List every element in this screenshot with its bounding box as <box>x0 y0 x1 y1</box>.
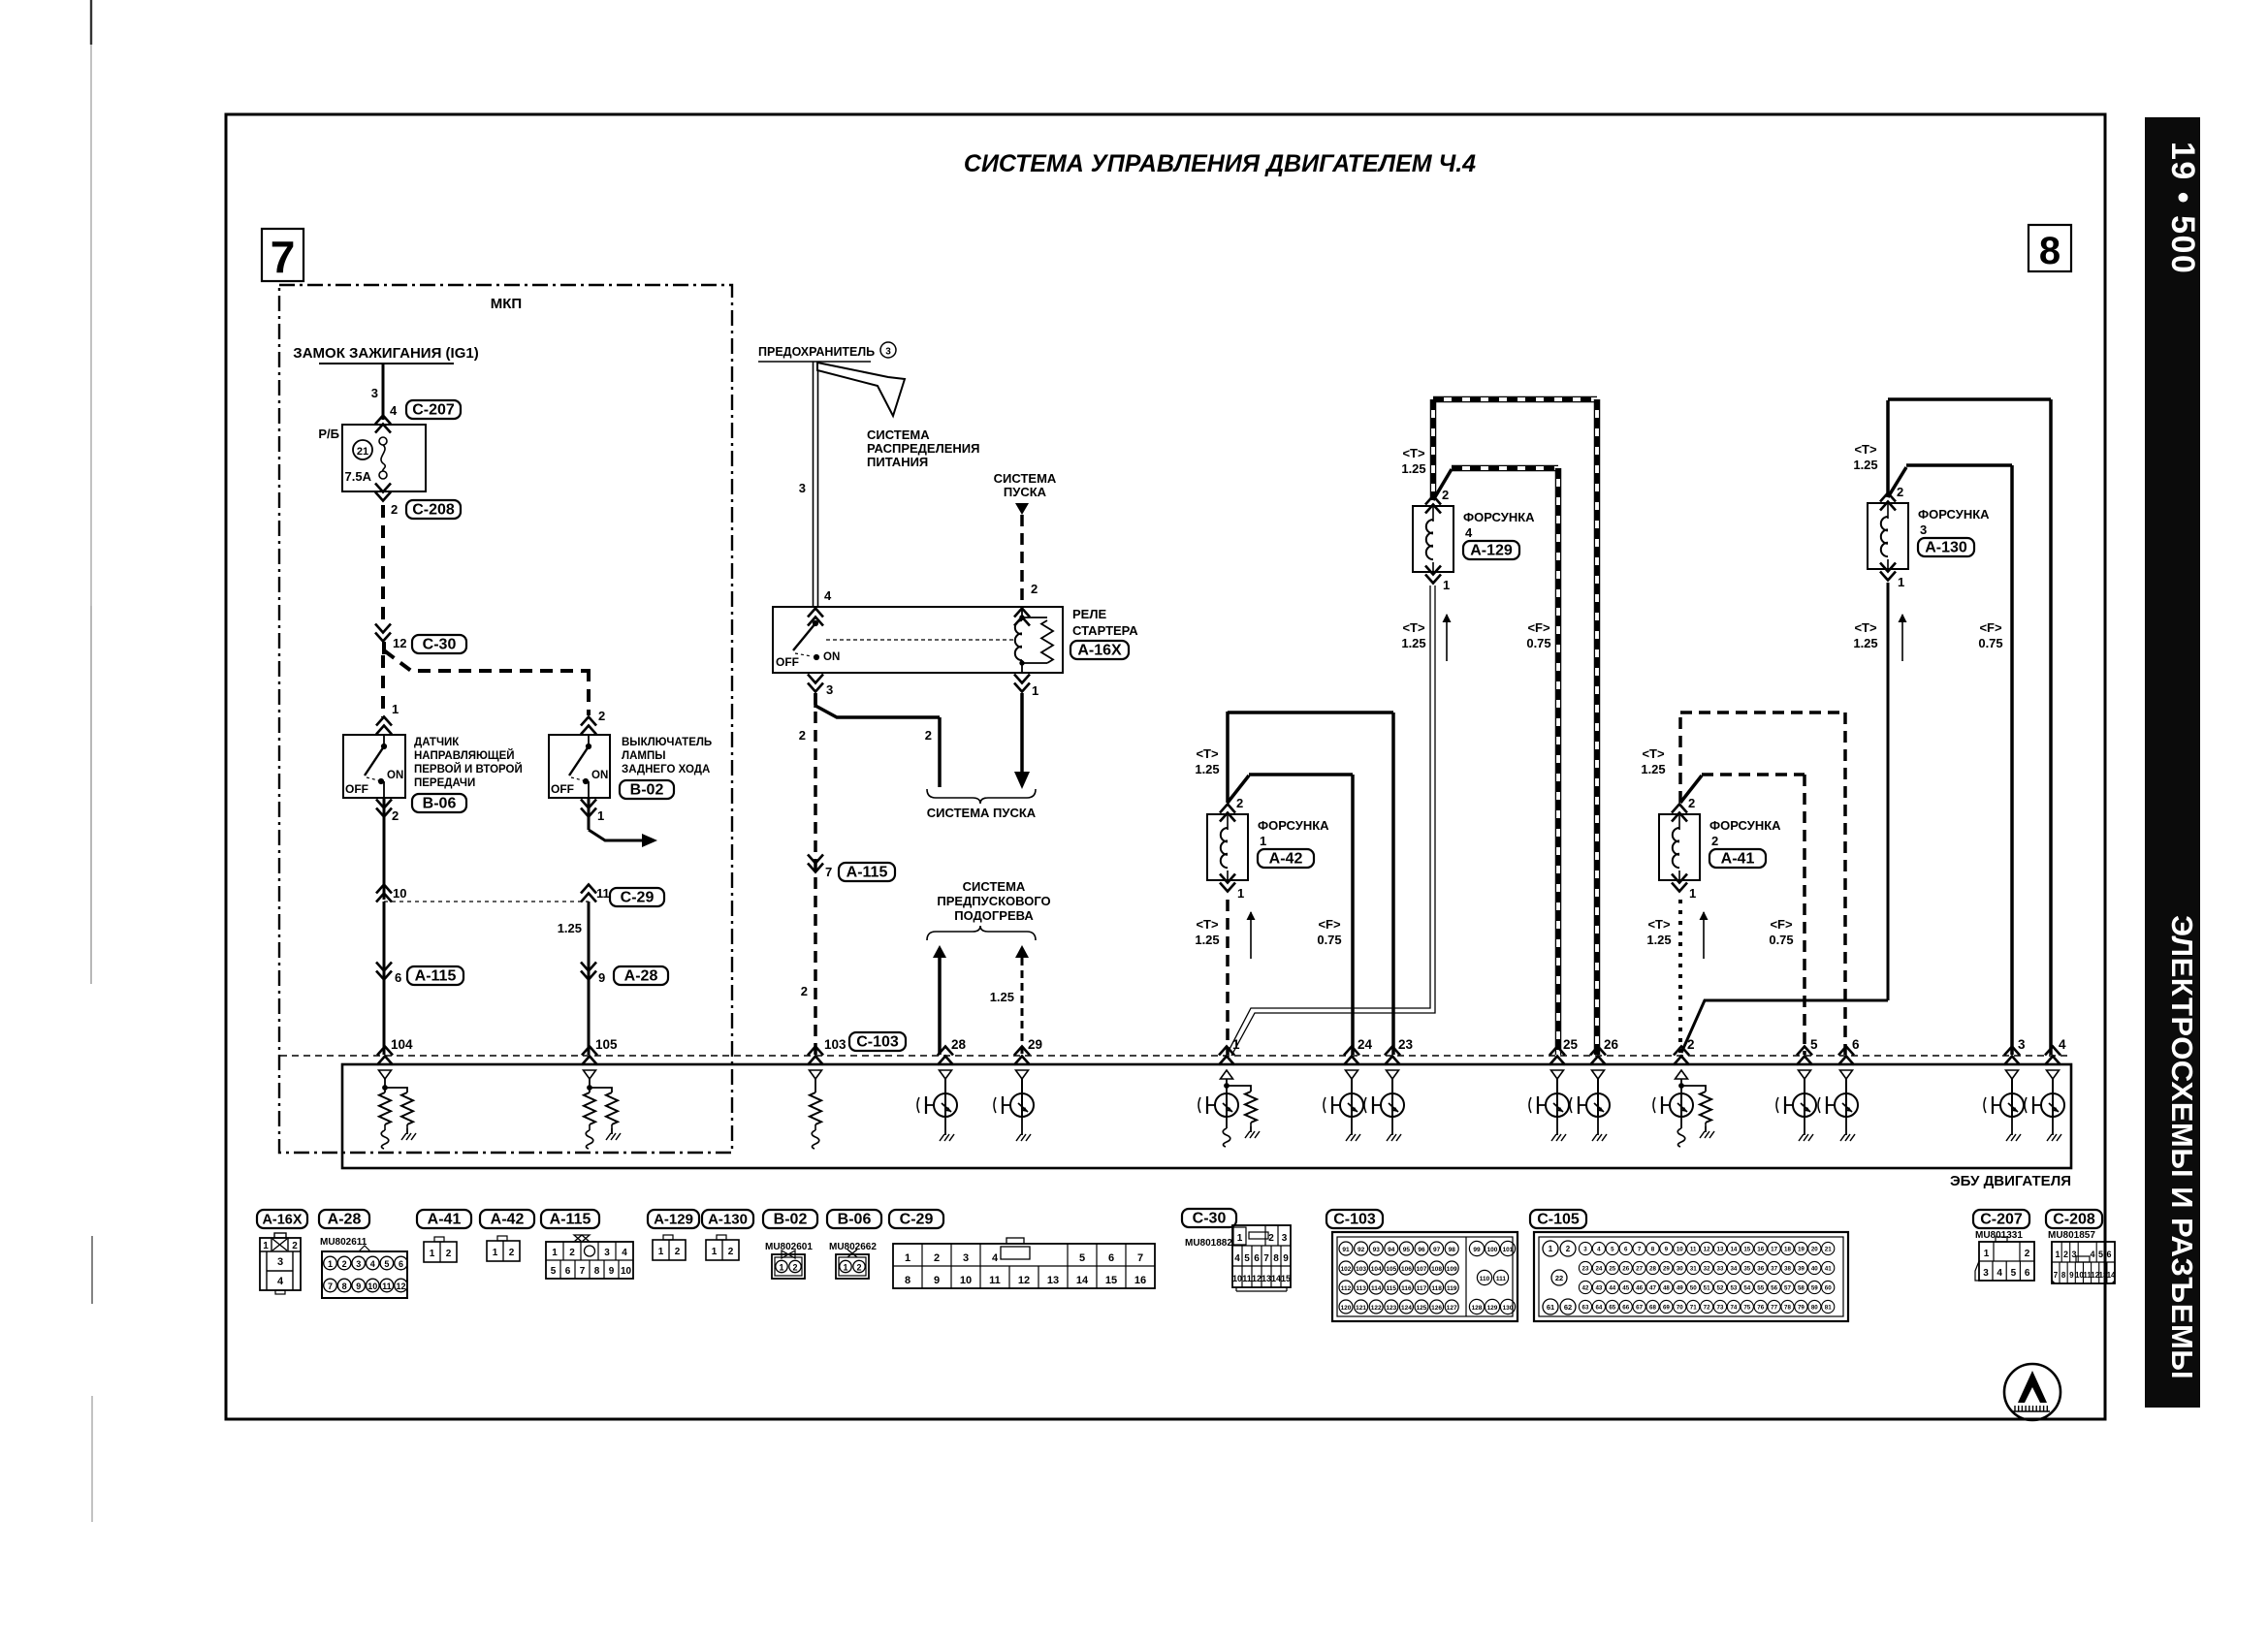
svg-text:C-30: C-30 <box>423 637 457 653</box>
svg-text:A-42: A-42 <box>491 1212 525 1228</box>
svg-text:10: 10 <box>1232 1274 1242 1283</box>
svg-text:A-129: A-129 <box>654 1212 693 1228</box>
svg-text:<T>: <T> <box>1402 446 1425 460</box>
svg-text:2: 2 <box>2025 1249 2030 1259</box>
svg-text:104: 104 <box>391 1037 413 1052</box>
svg-text:1: 1 <box>1237 1233 1243 1244</box>
svg-text:23: 23 <box>1582 1266 1589 1273</box>
svg-text:59: 59 <box>1811 1285 1818 1292</box>
svg-text:A-130: A-130 <box>1925 540 1967 556</box>
svg-text:29: 29 <box>1663 1266 1670 1273</box>
svg-text:99: 99 <box>1473 1247 1481 1253</box>
svg-text:25: 25 <box>1563 1037 1579 1052</box>
svg-text:21: 21 <box>357 446 368 458</box>
svg-text:70: 70 <box>1677 1305 1683 1312</box>
svg-text:8: 8 <box>342 1282 347 1291</box>
svg-text:MU802662: MU802662 <box>829 1242 877 1252</box>
svg-text:B-06: B-06 <box>838 1212 872 1228</box>
svg-text:3: 3 <box>604 1248 610 1258</box>
svg-text:13: 13 <box>1047 1275 1059 1286</box>
svg-text:1: 1 <box>1689 886 1696 901</box>
svg-text:57: 57 <box>1784 1285 1791 1292</box>
svg-text:2: 2 <box>1897 485 1903 499</box>
svg-text:125: 125 <box>1417 1305 1427 1312</box>
svg-text:5: 5 <box>1244 1253 1250 1264</box>
svg-text:62: 62 <box>1564 1303 1572 1312</box>
svg-text:3: 3 <box>1282 1233 1288 1244</box>
svg-text:СИСТЕМА УПРАВЛЕНИЯ ДВИГАТЕЛЕМ: СИСТЕМА УПРАВЛЕНИЯ ДВИГАТЕЛЕМ Ч.4 <box>964 150 1476 177</box>
svg-text:1: 1 <box>430 1249 435 1259</box>
svg-text:6: 6 <box>1852 1037 1860 1052</box>
svg-text:127: 127 <box>1447 1305 1457 1312</box>
svg-text:4: 4 <box>992 1252 999 1264</box>
svg-text:41: 41 <box>1825 1266 1832 1273</box>
svg-text:67: 67 <box>1636 1305 1643 1312</box>
svg-text:3: 3 <box>885 347 891 358</box>
svg-text:7: 7 <box>328 1282 333 1291</box>
svg-text:98: 98 <box>1449 1247 1456 1253</box>
svg-text:A-41: A-41 <box>428 1212 462 1228</box>
svg-text:10: 10 <box>1677 1247 1683 1253</box>
svg-text:114: 114 <box>1371 1285 1382 1292</box>
svg-text:ЗАМОК ЗАЖИГАНИЯ (IG1): ЗАМОК ЗАЖИГАНИЯ (IG1) <box>293 345 478 362</box>
svg-text:OFF: OFF <box>776 655 799 669</box>
svg-text:ФОРСУНКА: ФОРСУНКА <box>1463 510 1535 524</box>
svg-text:3: 3 <box>1583 1247 1587 1253</box>
svg-text:2: 2 <box>925 728 932 743</box>
svg-text:2: 2 <box>598 709 605 723</box>
svg-text:15: 15 <box>1281 1274 1291 1283</box>
svg-text:61: 61 <box>1547 1303 1554 1312</box>
svg-text:10: 10 <box>960 1275 972 1286</box>
svg-text:1.25: 1.25 <box>1853 636 1877 650</box>
svg-text:2: 2 <box>1688 796 1695 810</box>
svg-text:1.25: 1.25 <box>1401 636 1425 650</box>
svg-text:3: 3 <box>356 1259 361 1269</box>
svg-text:1: 1 <box>1232 1037 1240 1052</box>
svg-text:MU801331: MU801331 <box>1975 1230 2023 1241</box>
svg-text:<T>: <T> <box>1196 917 1219 932</box>
svg-text:17: 17 <box>1771 1247 1777 1253</box>
svg-text:1: 1 <box>328 1259 333 1269</box>
svg-text:A-115: A-115 <box>550 1212 591 1228</box>
svg-text:13: 13 <box>1717 1247 1724 1253</box>
svg-text:33: 33 <box>1717 1266 1724 1273</box>
svg-text:7.5A: 7.5A <box>345 469 372 484</box>
svg-text:7: 7 <box>825 865 832 879</box>
svg-text:MU801882: MU801882 <box>1185 1238 1232 1249</box>
svg-text:104: 104 <box>1371 1266 1382 1273</box>
svg-text:MU801857: MU801857 <box>2048 1230 2095 1241</box>
svg-text:11: 11 <box>382 1282 392 1291</box>
svg-text:ЗАДНЕГО ХОДА: ЗАДНЕГО ХОДА <box>622 764 710 776</box>
svg-text:<T>: <T> <box>1854 620 1877 635</box>
svg-text:РЕЛЕ: РЕЛЕ <box>1072 607 1106 621</box>
svg-text:3: 3 <box>963 1252 969 1264</box>
svg-text:96: 96 <box>1418 1247 1425 1253</box>
svg-text:8: 8 <box>905 1275 910 1286</box>
svg-text:MU802611: MU802611 <box>320 1237 367 1248</box>
svg-text:58: 58 <box>1798 1285 1805 1292</box>
svg-text:4: 4 <box>370 1259 375 1269</box>
svg-text:108: 108 <box>1431 1266 1442 1273</box>
svg-text:71: 71 <box>1690 1305 1697 1312</box>
svg-text:79: 79 <box>1798 1305 1805 1312</box>
svg-text:2: 2 <box>799 728 806 743</box>
svg-text:46: 46 <box>1636 1285 1643 1292</box>
svg-text:3: 3 <box>1983 1268 1989 1279</box>
svg-text:3: 3 <box>277 1256 283 1268</box>
svg-text:B-02: B-02 <box>774 1212 808 1228</box>
svg-text:113: 113 <box>1356 1285 1366 1292</box>
svg-text:6: 6 <box>1108 1252 1114 1264</box>
svg-text:C-103: C-103 <box>1333 1212 1376 1228</box>
svg-text:4: 4 <box>277 1276 284 1287</box>
svg-text:7: 7 <box>1263 1253 1269 1264</box>
svg-text:2: 2 <box>392 808 399 823</box>
svg-text:38: 38 <box>1784 1266 1791 1273</box>
svg-text:<F>: <F> <box>1318 917 1341 932</box>
svg-text:<T>: <T> <box>1854 442 1877 457</box>
svg-text:1: 1 <box>843 1263 847 1273</box>
svg-text:8: 8 <box>1273 1253 1279 1264</box>
svg-text:1: 1 <box>493 1248 498 1258</box>
svg-text:129: 129 <box>1487 1305 1498 1312</box>
svg-text:80: 80 <box>1811 1305 1818 1312</box>
svg-text:ЭЛЕКТРОСХЕМЫ И РАЗЪЕМЫ: ЭЛЕКТРОСХЕМЫ И РАЗЪЕМЫ <box>2165 915 2199 1379</box>
svg-text:24: 24 <box>1358 1037 1373 1052</box>
svg-text:0.75: 0.75 <box>1769 933 1793 947</box>
svg-text:1: 1 <box>1260 834 1266 848</box>
svg-text:4: 4 <box>1597 1247 1601 1253</box>
svg-text:1: 1 <box>658 1247 664 1257</box>
svg-text:63: 63 <box>1582 1305 1589 1312</box>
svg-text:ПОДОГРЕВА: ПОДОГРЕВА <box>954 908 1034 923</box>
svg-text:7: 7 <box>2054 1271 2059 1280</box>
svg-text:20: 20 <box>1811 1247 1818 1253</box>
svg-text:92: 92 <box>1358 1247 1365 1253</box>
svg-text:ON: ON <box>591 770 608 781</box>
svg-text:26: 26 <box>1604 1037 1619 1052</box>
svg-text:12: 12 <box>393 636 406 650</box>
svg-text:ON: ON <box>387 770 403 781</box>
svg-text:1: 1 <box>392 702 399 716</box>
svg-text:<T>: <T> <box>1402 620 1425 635</box>
svg-text:ВЫКЛЮЧАТЕЛЬ: ВЫКЛЮЧАТЕЛЬ <box>622 737 712 748</box>
svg-text:3: 3 <box>799 481 806 495</box>
svg-text:15: 15 <box>1105 1275 1117 1286</box>
svg-text:120: 120 <box>1341 1305 1352 1312</box>
svg-text:A-16X: A-16X <box>262 1213 302 1228</box>
svg-text:4: 4 <box>622 1248 627 1258</box>
svg-text:1: 1 <box>1032 683 1038 698</box>
svg-text:1: 1 <box>779 1263 783 1273</box>
svg-text:51: 51 <box>1704 1285 1710 1292</box>
svg-text:ПЕРЕДАЧИ: ПЕРЕДАЧИ <box>414 777 475 789</box>
svg-text:8: 8 <box>594 1266 600 1277</box>
svg-text:МКП: МКП <box>491 296 522 312</box>
svg-text:12: 12 <box>396 1282 405 1291</box>
svg-text:5: 5 <box>384 1259 389 1269</box>
svg-text:36: 36 <box>1757 1266 1764 1273</box>
svg-text:119: 119 <box>1447 1285 1457 1292</box>
svg-text:C-208: C-208 <box>412 502 455 519</box>
svg-text:C-103: C-103 <box>856 1034 899 1051</box>
svg-text:1.25: 1.25 <box>558 921 582 935</box>
svg-text:8: 8 <box>2061 1271 2066 1280</box>
svg-text:2: 2 <box>2063 1250 2068 1259</box>
svg-text:7: 7 <box>580 1266 586 1277</box>
svg-text:3: 3 <box>371 386 378 400</box>
svg-text:115: 115 <box>1387 1285 1397 1292</box>
svg-text:105: 105 <box>1386 1266 1396 1273</box>
svg-text:14: 14 <box>1730 1247 1737 1253</box>
svg-text:A-16X: A-16X <box>1077 643 1122 659</box>
svg-text:43: 43 <box>1595 1285 1602 1292</box>
svg-text:1.25: 1.25 <box>1641 762 1665 776</box>
svg-text:5: 5 <box>1810 1037 1818 1052</box>
svg-text:2: 2 <box>1268 1233 1274 1244</box>
svg-text:1: 1 <box>1898 575 1904 589</box>
svg-text:4: 4 <box>1996 1268 2002 1279</box>
svg-text:6: 6 <box>399 1259 403 1269</box>
svg-text:39: 39 <box>1798 1266 1805 1273</box>
svg-text:29: 29 <box>1028 1037 1042 1052</box>
svg-text:123: 123 <box>1386 1305 1396 1312</box>
svg-text:5: 5 <box>2098 1250 2103 1259</box>
svg-text:91: 91 <box>1342 1247 1350 1253</box>
svg-text:5: 5 <box>551 1266 557 1277</box>
svg-text:2: 2 <box>1442 488 1449 502</box>
svg-text:124: 124 <box>1401 1305 1412 1312</box>
svg-text:65: 65 <box>1609 1305 1615 1312</box>
svg-text:СТАРТЕРА: СТАРТЕРА <box>1072 623 1138 638</box>
svg-text:5: 5 <box>1079 1252 1085 1264</box>
svg-text:0.75: 0.75 <box>1317 933 1341 947</box>
svg-text:C-30: C-30 <box>1193 1211 1227 1227</box>
svg-text:2: 2 <box>1566 1245 1571 1253</box>
svg-text:4: 4 <box>2090 1250 2094 1259</box>
svg-text:ПИТАНИЯ: ПИТАНИЯ <box>867 455 928 469</box>
svg-text:7: 7 <box>1137 1252 1143 1264</box>
svg-text:112: 112 <box>1341 1285 1352 1292</box>
svg-text:11: 11 <box>596 886 610 901</box>
svg-text:56: 56 <box>1771 1285 1777 1292</box>
svg-text:117: 117 <box>1417 1285 1427 1292</box>
svg-text:47: 47 <box>1649 1285 1656 1292</box>
svg-text:15: 15 <box>1743 1247 1750 1253</box>
svg-text:СИСТЕМА: СИСТЕМА <box>994 471 1057 486</box>
svg-text:ПРЕДОХРАНИТЕЛЬ: ПРЕДОХРАНИТЕЛЬ <box>758 345 875 359</box>
svg-text:A-28: A-28 <box>624 968 658 985</box>
svg-text:10: 10 <box>393 886 406 901</box>
svg-text:78: 78 <box>1784 1305 1791 1312</box>
svg-text:8: 8 <box>2039 230 2060 272</box>
svg-text:3: 3 <box>2018 1037 2026 1052</box>
svg-text:ПУСКА: ПУСКА <box>1004 485 1047 499</box>
svg-text:30: 30 <box>1677 1266 1683 1273</box>
svg-text:2: 2 <box>509 1248 515 1258</box>
svg-text:21: 21 <box>1825 1247 1832 1253</box>
svg-text:MU802601: MU802601 <box>765 1242 813 1252</box>
svg-text:<T>: <T> <box>1647 917 1671 932</box>
svg-text:42: 42 <box>1582 1285 1589 1292</box>
svg-text:<F>: <F> <box>1770 917 1793 932</box>
svg-text:4: 4 <box>2059 1037 2066 1052</box>
svg-text:76: 76 <box>1757 1305 1764 1312</box>
svg-text:18: 18 <box>1784 1247 1791 1253</box>
svg-text:116: 116 <box>1401 1285 1412 1292</box>
svg-text:1: 1 <box>1549 1245 1553 1253</box>
svg-text:ПРЕДПУСКОВОГО: ПРЕДПУСКОВОГО <box>937 894 1050 908</box>
svg-text:1: 1 <box>905 1252 910 1264</box>
svg-text:ЭБУ ДВИГАТЕЛЯ: ЭБУ ДВИГАТЕЛЯ <box>1950 1173 2071 1189</box>
svg-text:110: 110 <box>1480 1276 1490 1282</box>
svg-text:1: 1 <box>1984 1249 1990 1259</box>
svg-text:1: 1 <box>712 1247 718 1257</box>
svg-text:77: 77 <box>1771 1305 1777 1312</box>
svg-text:28: 28 <box>951 1037 967 1052</box>
svg-text:11: 11 <box>1242 1274 1252 1283</box>
svg-text:СИСТЕМА: СИСТЕМА <box>867 427 930 442</box>
svg-text:66: 66 <box>1622 1305 1629 1312</box>
svg-text:103: 103 <box>1356 1266 1366 1273</box>
svg-text:3: 3 <box>2071 1250 2076 1259</box>
svg-text:0.75: 0.75 <box>1526 636 1550 650</box>
svg-text:Р/Б: Р/Б <box>318 427 339 441</box>
svg-text:C-208: C-208 <box>2053 1212 2095 1228</box>
svg-text:118: 118 <box>1431 1285 1442 1292</box>
svg-text:109: 109 <box>1447 1266 1457 1273</box>
svg-text:1.25: 1.25 <box>1646 933 1671 947</box>
svg-text:1: 1 <box>1237 886 1244 901</box>
svg-text:16: 16 <box>1757 1247 1764 1253</box>
svg-text:A-115: A-115 <box>847 865 888 881</box>
svg-text:37: 37 <box>1771 1266 1777 1273</box>
svg-text:6: 6 <box>565 1266 571 1277</box>
svg-text:32: 32 <box>1704 1266 1710 1273</box>
svg-text:9: 9 <box>1283 1253 1289 1264</box>
svg-text:C-105: C-105 <box>1537 1212 1580 1228</box>
svg-text:0.75: 0.75 <box>1978 636 2002 650</box>
svg-text:2: 2 <box>391 502 398 517</box>
svg-text:OFF: OFF <box>345 782 368 796</box>
svg-text:24: 24 <box>1595 1266 1602 1273</box>
svg-text:9: 9 <box>934 1275 940 1286</box>
svg-text:ПЕРВОЙ И ВТОРОЙ: ПЕРВОЙ И ВТОРОЙ <box>414 763 523 776</box>
svg-text:97: 97 <box>1433 1247 1441 1253</box>
svg-text:75: 75 <box>1743 1305 1750 1312</box>
svg-text:<T>: <T> <box>1196 746 1219 761</box>
svg-text:130: 130 <box>1503 1305 1514 1312</box>
svg-text:3: 3 <box>826 682 833 697</box>
svg-text:2: 2 <box>569 1248 575 1258</box>
svg-text:A-129: A-129 <box>1470 543 1513 559</box>
svg-text:1: 1 <box>552 1248 558 1258</box>
svg-text:2: 2 <box>1687 1037 1695 1052</box>
svg-text:6: 6 <box>2106 1250 2111 1259</box>
svg-text:12: 12 <box>1018 1275 1030 1286</box>
svg-text:ON: ON <box>823 651 840 663</box>
svg-text:14: 14 <box>1271 1274 1281 1283</box>
svg-text:6: 6 <box>1624 1247 1628 1253</box>
svg-text:1.25: 1.25 <box>990 990 1014 1004</box>
svg-text:27: 27 <box>1636 1266 1643 1273</box>
svg-text:C-207: C-207 <box>412 402 455 419</box>
svg-text:100: 100 <box>1487 1247 1498 1253</box>
svg-text:121: 121 <box>1356 1305 1366 1312</box>
svg-text:16: 16 <box>1134 1275 1146 1286</box>
svg-text:22: 22 <box>1555 1274 1563 1282</box>
svg-text:2: 2 <box>675 1247 681 1257</box>
svg-text:ДАТЧИК: ДАТЧИК <box>414 737 460 748</box>
svg-text:2: 2 <box>446 1249 452 1259</box>
svg-text:60: 60 <box>1825 1285 1832 1292</box>
svg-text:102: 102 <box>1341 1266 1352 1273</box>
svg-text:B-02: B-02 <box>630 782 664 799</box>
svg-text:2: 2 <box>292 1241 298 1251</box>
svg-text:50: 50 <box>1690 1285 1697 1292</box>
svg-text:93: 93 <box>1373 1247 1381 1253</box>
svg-text:C-207: C-207 <box>1980 1212 2023 1228</box>
svg-text:2: 2 <box>728 1247 734 1257</box>
svg-text:2: 2 <box>342 1259 347 1269</box>
svg-text:40: 40 <box>1811 1266 1818 1273</box>
svg-text:19 • 500: 19 • 500 <box>2164 142 2201 274</box>
svg-text:C-29: C-29 <box>621 890 655 906</box>
svg-text:11: 11 <box>1690 1247 1697 1253</box>
svg-text:55: 55 <box>1757 1285 1764 1292</box>
svg-text:23: 23 <box>1398 1037 1414 1052</box>
svg-text:35: 35 <box>1743 1266 1750 1273</box>
svg-text:73: 73 <box>1717 1305 1724 1312</box>
svg-text:7: 7 <box>271 232 296 282</box>
svg-text:A-28: A-28 <box>328 1212 362 1228</box>
svg-text:103: 103 <box>824 1037 847 1052</box>
svg-text:64: 64 <box>1595 1305 1602 1312</box>
svg-text:101: 101 <box>1503 1247 1514 1253</box>
svg-text:<T>: <T> <box>1642 746 1665 761</box>
svg-text:9: 9 <box>356 1282 361 1291</box>
svg-text:13: 13 <box>1262 1274 1271 1283</box>
svg-text:6: 6 <box>1254 1253 1260 1264</box>
svg-text:4: 4 <box>1234 1253 1240 1264</box>
svg-text:48: 48 <box>1663 1285 1670 1292</box>
svg-text:107: 107 <box>1417 1266 1427 1273</box>
svg-text:52: 52 <box>1717 1285 1724 1292</box>
svg-text:1.25: 1.25 <box>1853 458 1877 472</box>
svg-text:1.25: 1.25 <box>1401 461 1425 476</box>
svg-text:72: 72 <box>1704 1305 1710 1312</box>
svg-text:2: 2 <box>792 1263 797 1273</box>
svg-text:8: 8 <box>1651 1247 1655 1253</box>
svg-text:6: 6 <box>395 970 401 985</box>
svg-text:1: 1 <box>263 1241 269 1251</box>
svg-text:2: 2 <box>801 984 808 998</box>
svg-text:95: 95 <box>1403 1247 1411 1253</box>
svg-text:9: 9 <box>2069 1271 2074 1280</box>
svg-text:2: 2 <box>1031 582 1038 596</box>
svg-text:1.25: 1.25 <box>1195 933 1219 947</box>
svg-text:B-06: B-06 <box>423 796 457 812</box>
svg-text:34: 34 <box>1730 1266 1737 1273</box>
svg-text:СИСТЕМА: СИСТЕМА <box>963 879 1026 894</box>
svg-text:ФОРСУНКА: ФОРСУНКА <box>1918 507 1990 522</box>
svg-text:A-115: A-115 <box>415 968 457 985</box>
svg-text:7: 7 <box>1638 1247 1642 1253</box>
svg-text:122: 122 <box>1371 1305 1382 1312</box>
svg-text:<F>: <F> <box>1527 620 1550 635</box>
